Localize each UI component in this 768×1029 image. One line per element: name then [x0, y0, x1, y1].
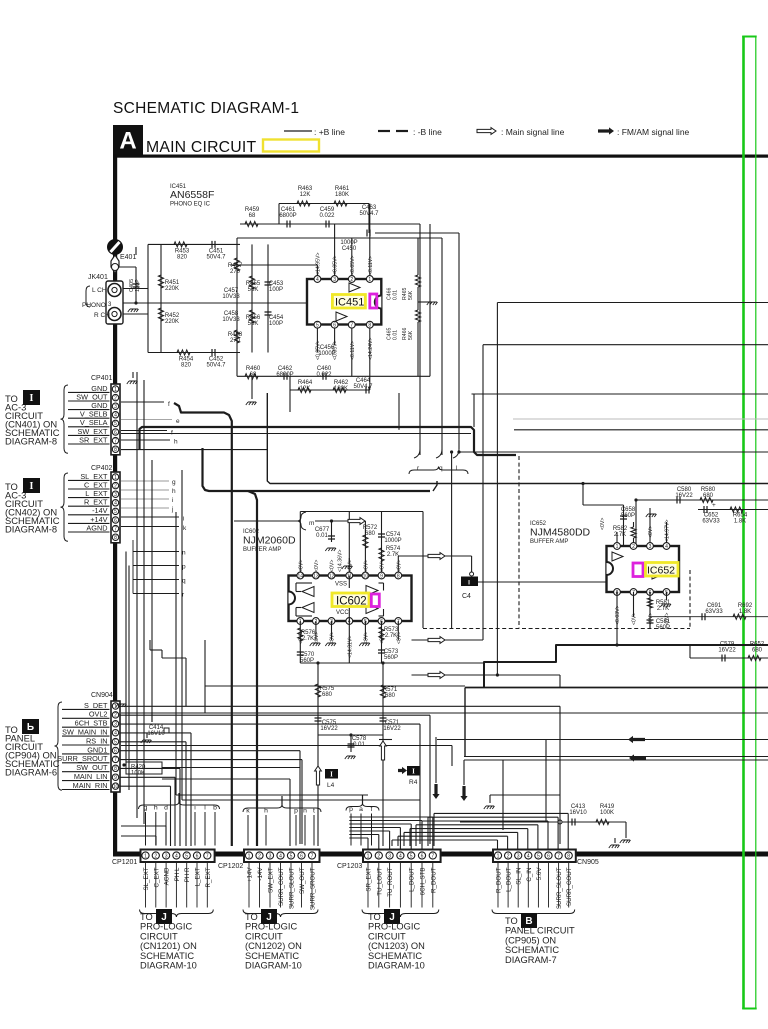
svg-text:CIRCUIT: CIRCUIT: [140, 931, 178, 941]
svg-text:<0.05V>: <0.05V>: [315, 340, 321, 360]
svg-text:BUFFER AMP: BUFFER AMP: [530, 539, 568, 545]
svg-text:TU_ROUT: TU_ROUT: [387, 867, 394, 896]
svg-text:<0.05V>: <0.05V>: [333, 255, 339, 275]
svg-text:: +B line: : +B line: [314, 127, 345, 137]
svg-text:12: 12: [329, 573, 335, 579]
svg-text:Ь: Ь: [27, 722, 34, 733]
svg-text:q: q: [182, 578, 186, 585]
svg-text:2.7K: 2.7K: [385, 633, 397, 639]
svg-text:56K: 56K: [248, 287, 259, 293]
svg-text:680: 680: [322, 692, 333, 698]
svg-text:5: 5: [185, 853, 188, 859]
svg-text:6: 6: [196, 853, 199, 859]
svg-text:AN6558F: AN6558F: [170, 189, 214, 201]
svg-text:3: 3: [333, 277, 336, 283]
svg-text:f: f: [371, 806, 373, 813]
svg-text:0.022: 0.022: [319, 213, 335, 219]
svg-text:t: t: [313, 808, 315, 815]
svg-text:56K: 56K: [408, 330, 414, 340]
svg-text:1: 1: [367, 853, 370, 859]
svg-text:<14.24V>: <14.24V>: [368, 337, 374, 360]
svg-text:12K: 12K: [300, 192, 311, 198]
svg-text:SURR_SLOUT: SURR_SLOUT: [289, 867, 296, 909]
svg-text:7: 7: [557, 853, 560, 859]
svg-text:100P: 100P: [135, 279, 141, 292]
svg-text:2.7K: 2.7K: [614, 532, 626, 538]
svg-text:S_DET: S_DET: [84, 701, 108, 710]
svg-text:50V4.7: 50V4.7: [206, 363, 226, 369]
svg-text:3: 3: [517, 853, 520, 859]
svg-text:MAIN_LIN: MAIN_LIN: [74, 772, 108, 781]
svg-text:7: 7: [114, 438, 117, 444]
svg-text:m: m: [309, 520, 314, 527]
svg-text:SW_EXT: SW_EXT: [268, 867, 275, 893]
svg-text:<0V>: <0V>: [396, 560, 402, 572]
svg-text:<0V>: <0V>: [330, 560, 336, 572]
svg-text:2: 2: [114, 483, 117, 489]
svg-text:SURR_COUT: SURR_COUT: [566, 867, 573, 906]
svg-text:h: h: [154, 805, 158, 812]
svg-text:6: 6: [114, 430, 117, 436]
svg-text:C_IN: C_IN: [526, 868, 533, 882]
svg-text:L_DOUT: L_DOUT: [409, 867, 416, 892]
svg-text:6800P: 6800P: [279, 213, 296, 219]
svg-text:CN904: CN904: [91, 692, 113, 699]
svg-text:n: n: [182, 550, 186, 557]
svg-text:0.01: 0.01: [316, 533, 328, 539]
svg-text:16V10: 16V10: [569, 810, 587, 816]
svg-text:i: i: [183, 516, 184, 523]
svg-text:VSS: VSS: [335, 582, 347, 588]
svg-text:DIAGRAM-10: DIAGRAM-10: [245, 961, 302, 971]
svg-text:100P: 100P: [269, 287, 283, 293]
svg-text:b: b: [213, 805, 217, 812]
svg-text:680: 680: [365, 531, 376, 537]
svg-text:IC602: IC602: [336, 596, 367, 608]
svg-text:4: 4: [279, 853, 282, 859]
svg-text:I: I: [412, 767, 415, 775]
svg-text:I: I: [30, 393, 34, 404]
svg-text:2: 2: [154, 853, 157, 859]
svg-text:(CN1202) ON: (CN1202) ON: [245, 941, 302, 951]
svg-text:(CP905) ON: (CP905) ON: [505, 935, 556, 945]
svg-text:L4: L4: [327, 782, 335, 789]
svg-text:TO: TO: [245, 912, 258, 922]
svg-text:63V33: 63V33: [702, 519, 720, 525]
svg-text:SW_MAIN_IN: SW_MAIN_IN: [62, 728, 107, 737]
svg-text:PH L: PH L: [174, 867, 181, 881]
svg-text:1: 1: [497, 853, 500, 859]
svg-text:PRO-LOGIC: PRO-LOGIC: [245, 922, 297, 932]
svg-text:TO: TO: [140, 912, 153, 922]
svg-text:7: 7: [206, 853, 209, 859]
svg-text:0.01: 0.01: [393, 330, 399, 340]
svg-text:560P: 560P: [300, 658, 314, 664]
svg-text:56K: 56K: [248, 321, 259, 327]
svg-text:16V22: 16V22: [675, 493, 693, 499]
svg-text:1: 1: [144, 853, 147, 859]
svg-text:5: 5: [114, 509, 117, 515]
svg-text:7: 7: [350, 323, 353, 329]
svg-text:2: 2: [632, 544, 635, 550]
svg-text:p: p: [349, 806, 353, 813]
svg-text:180K: 180K: [335, 192, 349, 198]
svg-text:+: +: [712, 502, 716, 509]
svg-text:<0.05V>: <0.05V>: [350, 255, 356, 275]
svg-text:g: g: [172, 479, 176, 486]
svg-text:PHONO EQ IC: PHONO EQ IC: [170, 202, 211, 208]
svg-text:DIAGRAM-10: DIAGRAM-10: [368, 961, 425, 971]
svg-text:4: 4: [175, 853, 178, 859]
svg-text:PH R: PH R: [184, 867, 191, 882]
svg-text:6: 6: [421, 853, 424, 859]
svg-text:j: j: [171, 506, 173, 513]
svg-text:p: p: [182, 564, 186, 571]
svg-text:220K: 220K: [165, 319, 179, 325]
svg-text:4: 4: [114, 413, 117, 419]
svg-text:h: h: [264, 808, 268, 815]
svg-text:PRO-LOGIC: PRO-LOGIC: [368, 922, 420, 932]
svg-text:BUFFER AMP: BUFFER AMP: [243, 547, 281, 553]
svg-text:6: 6: [300, 853, 303, 859]
svg-text:4: 4: [665, 544, 668, 550]
svg-text:16V10: 16V10: [147, 731, 165, 737]
svg-text:AGND: AGND: [164, 867, 171, 885]
svg-text:SL_EXT: SL_EXT: [143, 867, 150, 890]
svg-text:5: 5: [410, 853, 413, 859]
svg-text:7: 7: [114, 526, 117, 532]
svg-text:220K: 220K: [165, 286, 179, 292]
svg-text:5.6V: 5.6V: [536, 867, 543, 881]
svg-text:3: 3: [114, 404, 117, 410]
svg-text:RS_IN: RS_IN: [86, 736, 108, 745]
svg-text:IC451: IC451: [335, 297, 364, 309]
svg-text:R CH: R CH: [94, 312, 110, 319]
svg-text:0.01: 0.01: [393, 290, 399, 300]
svg-text:1: 1: [114, 475, 117, 481]
svg-text:<14.31V>: <14.31V>: [347, 635, 353, 658]
svg-text:SCHEMATIC: SCHEMATIC: [140, 951, 194, 961]
svg-text:8: 8: [114, 535, 117, 541]
svg-text:<0.05V>: <0.05V>: [333, 340, 339, 360]
svg-text:A: A: [119, 128, 136, 155]
svg-text:a: a: [359, 806, 363, 813]
svg-text:SCHEMATIC DIAGRAM-1: SCHEMATIC DIAGRAM-1: [113, 100, 299, 117]
svg-text:1000P: 1000P: [384, 538, 401, 544]
svg-text:DIAGRAM-8: DIAGRAM-8: [5, 436, 57, 447]
svg-text:2.7K: 2.7K: [387, 552, 399, 558]
svg-text:TO: TO: [505, 916, 518, 926]
svg-text:SCHEMATIC: SCHEMATIC: [368, 951, 422, 961]
svg-text:56K: 56K: [408, 290, 414, 300]
svg-text:6: 6: [114, 748, 117, 754]
svg-text:<0.11V>: <0.11V>: [368, 256, 374, 275]
svg-text:<0V>: <0V>: [314, 560, 320, 572]
svg-text:R_DOUT: R_DOUT: [430, 867, 437, 893]
svg-text:4: 4: [114, 501, 117, 507]
svg-text:6CH_STB: 6CH_STB: [420, 868, 427, 896]
svg-text:6800P: 6800P: [276, 372, 293, 378]
svg-text:8: 8: [114, 766, 117, 772]
svg-text:10: 10: [363, 573, 369, 579]
svg-text:50V4.7: 50V4.7: [206, 255, 226, 261]
svg-text:2: 2: [114, 713, 117, 719]
svg-text:C4: C4: [462, 593, 471, 600]
svg-text:2: 2: [114, 395, 117, 401]
svg-text:13: 13: [313, 573, 319, 579]
svg-text:: FM/AM signal line: : FM/AM signal line: [617, 127, 690, 137]
svg-text:MAIN_RIN: MAIN_RIN: [73, 781, 108, 790]
svg-text:DIAGRAM-10: DIAGRAM-10: [140, 961, 197, 971]
svg-text:SCHEMATIC: SCHEMATIC: [245, 951, 299, 961]
svg-text:VCC: VCC: [336, 610, 349, 616]
svg-text:5: 5: [114, 739, 117, 745]
svg-text:5: 5: [537, 853, 540, 859]
svg-text:PANEL CIRCUIT: PANEL CIRCUIT: [505, 926, 575, 936]
svg-text:1.8K: 1.8K: [734, 519, 746, 525]
svg-text:<0.03V>: <0.03V>: [615, 605, 621, 625]
svg-text:1: 1: [368, 277, 371, 283]
svg-text:g: g: [144, 805, 148, 812]
svg-text:7: 7: [114, 757, 117, 763]
svg-text:(CN1201) ON: (CN1201) ON: [140, 941, 197, 951]
svg-text:CP1203: CP1203: [337, 863, 362, 870]
svg-text:C_EXT: C_EXT: [153, 867, 160, 887]
svg-text:<14.97V>: <14.97V>: [665, 519, 671, 542]
svg-text:SURR_SLOUT: SURR_SLOUT: [556, 867, 563, 909]
svg-text:100K: 100K: [600, 810, 614, 816]
svg-text:1: 1: [616, 544, 619, 550]
svg-text:4: 4: [114, 731, 117, 737]
svg-text:<0V>: <0V>: [632, 613, 638, 625]
svg-text:+14V: +14V: [247, 867, 254, 882]
svg-text:IC652: IC652: [647, 565, 675, 577]
svg-text:L_EXT: L_EXT: [195, 867, 202, 886]
svg-text:I: I: [330, 770, 333, 778]
svg-text:(CN1203) ON: (CN1203) ON: [368, 941, 425, 951]
svg-text:i: i: [172, 497, 173, 504]
svg-text:2: 2: [377, 853, 380, 859]
svg-text:SCHEMATIC: SCHEMATIC: [505, 945, 559, 955]
svg-text:3: 3: [114, 492, 117, 498]
svg-text:E401: E401: [120, 254, 136, 261]
svg-text:NJM2060D: NJM2060D: [243, 535, 296, 547]
svg-text:<14.95V>: <14.95V>: [315, 252, 321, 275]
svg-text:14: 14: [298, 573, 304, 579]
svg-text:3: 3: [269, 853, 272, 859]
svg-text:: -B line: : -B line: [413, 127, 442, 137]
svg-text:100K: 100K: [131, 771, 145, 777]
svg-text:10V33: 10V33: [222, 294, 240, 300]
svg-text:DIAGRAM-7: DIAGRAM-7: [505, 955, 557, 965]
svg-text:CP401: CP401: [91, 375, 113, 382]
svg-text:<0V>: <0V>: [298, 560, 304, 572]
svg-text:TO: TO: [368, 912, 381, 922]
svg-text:1: 1: [114, 387, 117, 393]
svg-text:CN905: CN905: [577, 859, 599, 866]
svg-text:h: h: [174, 439, 178, 446]
svg-text:<0V>: <0V>: [396, 632, 402, 644]
svg-text:I: I: [30, 481, 34, 492]
svg-text:MAIN CIRCUIT: MAIN CIRCUIT: [146, 139, 256, 156]
svg-text:4: 4: [316, 277, 319, 283]
svg-text:SW_OUT: SW_OUT: [76, 763, 108, 772]
svg-text:OVL2: OVL2: [89, 710, 108, 719]
svg-text:SR_EXT: SR_EXT: [79, 435, 108, 444]
svg-text:16V22: 16V22: [718, 648, 736, 654]
svg-text:4: 4: [527, 853, 530, 859]
svg-text:CIRCUIT: CIRCUIT: [245, 931, 283, 941]
svg-text:d: d: [164, 805, 168, 812]
svg-text:3: 3: [649, 544, 652, 550]
svg-text:820: 820: [181, 363, 192, 369]
svg-text:AGND: AGND: [86, 523, 107, 532]
svg-text:<0V>: <0V>: [363, 632, 369, 644]
svg-text:<0V>: <0V>: [600, 518, 606, 530]
svg-text:10V33: 10V33: [222, 317, 240, 323]
svg-text:p: p: [294, 808, 298, 815]
svg-text:JK401: JK401: [88, 274, 108, 281]
svg-text:0.022: 0.022: [316, 372, 332, 378]
svg-text:h: h: [172, 488, 176, 495]
svg-text:8: 8: [114, 447, 117, 453]
svg-text:C450: C450: [342, 246, 357, 252]
svg-text:68: 68: [249, 213, 256, 219]
svg-text:100P: 100P: [269, 321, 283, 327]
svg-text:SR_EXT: SR_EXT: [366, 867, 373, 891]
svg-text:DIAGRAM-8: DIAGRAM-8: [5, 524, 57, 535]
svg-text:NJM4580DD: NJM4580DD: [530, 527, 591, 539]
svg-text:f: f: [168, 401, 170, 408]
svg-text:R_EXT: R_EXT: [205, 867, 212, 887]
svg-text:6CH_STB: 6CH_STB: [75, 719, 108, 728]
svg-text:6: 6: [114, 518, 117, 524]
svg-text:5: 5: [114, 421, 117, 427]
svg-text:SURR_SROUT: SURR_SROUT: [310, 867, 317, 910]
svg-text:63V33: 63V33: [705, 609, 723, 615]
svg-text:CP1202: CP1202: [218, 863, 243, 870]
svg-text:DIAGRAM-6: DIAGRAM-6: [5, 767, 57, 778]
svg-text:5: 5: [316, 323, 319, 329]
svg-text:1: 1: [248, 853, 251, 859]
svg-text:GND1: GND1: [87, 745, 107, 754]
svg-text:-14V: -14V: [257, 867, 264, 881]
svg-text:16V22: 16V22: [383, 726, 401, 732]
svg-text:8: 8: [397, 573, 400, 579]
svg-text:2: 2: [507, 853, 510, 859]
svg-text:f: f: [171, 430, 173, 437]
svg-text:<0V>: <0V>: [330, 632, 336, 644]
svg-text:5: 5: [290, 853, 293, 859]
svg-text:: Main signal line: : Main signal line: [501, 127, 565, 137]
svg-text:4: 4: [399, 853, 402, 859]
svg-text:<14.36V>: <14.36V>: [338, 549, 344, 572]
svg-text:680: 680: [385, 693, 396, 699]
svg-text:10: 10: [113, 784, 119, 790]
svg-text:560P: 560P: [656, 625, 670, 631]
svg-text:6: 6: [333, 323, 336, 329]
svg-text:SW_OUT: SW_OUT: [299, 867, 306, 894]
svg-text:CP1201: CP1201: [112, 859, 137, 866]
svg-text:0.01: 0.01: [353, 742, 365, 748]
svg-text:2.7K: 2.7K: [302, 636, 314, 642]
svg-text:2.7K: 2.7K: [657, 606, 669, 612]
svg-text:SURR_SROUT: SURR_SROUT: [57, 754, 108, 763]
svg-text:9: 9: [380, 573, 383, 579]
svg-text:2: 2: [258, 853, 261, 859]
svg-text:<0V>: <0V>: [380, 560, 386, 572]
svg-text:R4: R4: [409, 779, 418, 786]
svg-text:n: n: [303, 808, 307, 815]
svg-text:820: 820: [177, 255, 188, 261]
svg-text:L_DOUT: L_DOUT: [506, 867, 513, 892]
svg-text:I: I: [468, 580, 470, 587]
svg-text:SURR_COUT: SURR_COUT: [278, 867, 285, 906]
svg-text:1.8K: 1.8K: [739, 609, 751, 615]
svg-text:3: 3: [114, 722, 117, 728]
svg-text:2: 2: [350, 277, 353, 283]
svg-text:8: 8: [368, 323, 371, 329]
svg-text:8: 8: [567, 853, 570, 859]
svg-text:k: k: [246, 808, 250, 815]
svg-text:PRO-LOGIC: PRO-LOGIC: [140, 922, 192, 932]
svg-text:560P: 560P: [384, 655, 398, 661]
svg-text:SL_IN: SL_IN: [516, 868, 523, 885]
svg-text:7: 7: [311, 853, 314, 859]
svg-text:7: 7: [431, 853, 434, 859]
svg-text:<0.11V>: <0.11V>: [350, 341, 356, 360]
svg-text:<0V>: <0V>: [363, 560, 369, 572]
svg-text:<0V>: <0V>: [347, 560, 353, 572]
svg-text:CIRCUIT: CIRCUIT: [368, 931, 406, 941]
svg-text:TU_LOUT: TU_LOUT: [376, 867, 383, 895]
svg-text:6: 6: [547, 853, 550, 859]
svg-text:3: 3: [165, 853, 168, 859]
svg-text:16V22: 16V22: [320, 726, 338, 732]
svg-text:R_DOUT: R_DOUT: [496, 867, 503, 893]
svg-text:e: e: [176, 418, 180, 425]
svg-text:9: 9: [114, 775, 117, 781]
svg-text:<0V>: <0V>: [648, 526, 654, 538]
svg-text:3: 3: [388, 853, 391, 859]
svg-text:680: 680: [752, 648, 763, 654]
svg-text:L CH: L CH: [92, 287, 107, 294]
